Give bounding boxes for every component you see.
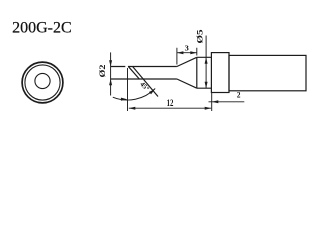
svg-text:45°: 45° bbox=[138, 80, 151, 93]
svg-text:Ø5: Ø5 bbox=[195, 30, 205, 44]
svg-text:Ø2: Ø2 bbox=[98, 64, 107, 77]
svg-text:12: 12 bbox=[167, 99, 174, 109]
svg-text:2: 2 bbox=[237, 91, 241, 100]
svg-text:3: 3 bbox=[185, 45, 190, 53]
svg-text:200G-2C: 200G-2C bbox=[12, 19, 72, 36]
